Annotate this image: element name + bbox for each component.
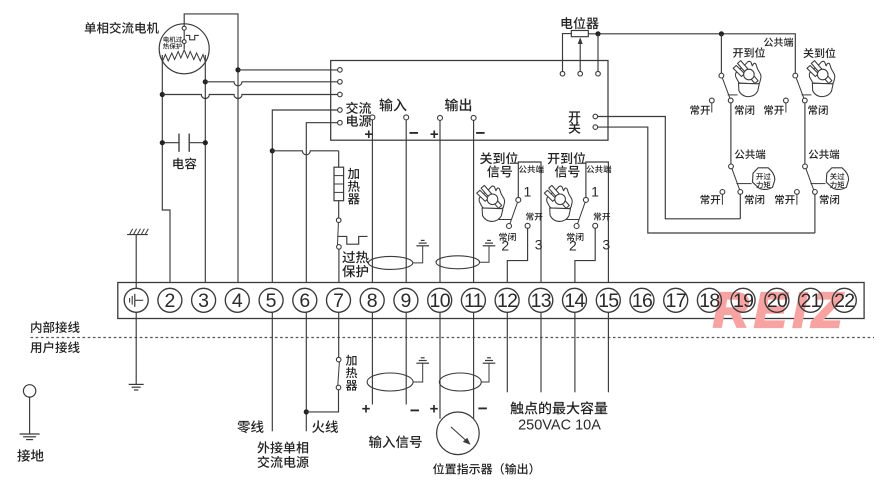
svg-text:13: 13 [531,290,551,312]
label: 开到位信号 [548,152,586,164]
terminal 4 [225,288,249,312]
svg-text:7: 7 [333,290,344,312]
wire: pot right pin [597,34,599,72]
label: 单相交流电机 [85,22,159,34]
label: 公共端 [586,165,611,173]
motor winding right [184,50,205,62]
label: 常开 [701,195,721,205]
terminal 12 [495,288,519,312]
controller pin 1 [338,68,343,73]
position indicator meter P1 [437,412,480,455]
junction: AC / heater branch [270,148,275,153]
wire: terminal 15 stub [607,312,609,392]
svg-text:17: 17 [666,290,686,312]
terminal 6 [293,288,317,312]
label: 公共端 [519,165,544,173]
svg-text:+: + [430,126,439,143]
wire: S1 NC to S3 common [730,103,732,164]
terminal 13 [529,288,553,312]
label: 常闭 [735,105,754,115]
junction: pot right / pin branch [595,31,600,36]
svg-text:21: 21 [800,290,820,312]
terminal 7 [327,288,351,312]
heater R1 (加热器) [334,167,344,201]
controller pin open (开) [593,114,598,119]
label: 接地 [17,449,43,462]
label: 公共端 [809,149,840,159]
label: 关到位信号 [480,152,518,164]
svg-text:12: 12 [497,290,517,312]
cable shield loop (user output) [439,373,481,391]
label: 开过力矩 [756,173,770,180]
svg-text:2: 2 [501,237,509,253]
terminal 19 [731,288,755,312]
wire: pot right rail to limit switches [588,34,795,74]
wire: S4 NC down [814,194,816,233]
earth electrode (接地) [23,385,35,397]
label: 常开 [526,212,542,220]
svg-text:+: + [364,126,373,143]
controller pin 3 [338,92,343,97]
terminal 5 [259,288,283,312]
terminal 17 [664,288,688,312]
svg-text:20: 20 [767,290,788,312]
wire: input- to terminal 9 [405,120,407,288]
svg-text:10: 10 [430,290,451,312]
controller pin close (关) [593,125,598,130]
controller pin AC (交流) [338,108,343,113]
wire: heater to thermal protector [338,201,340,218]
label: 电机过热保护 [164,36,183,42]
cable shield loop (output) [436,256,480,269]
terminal 18 [697,288,721,312]
torque switch S4 关过力矩 [803,164,808,169]
wire: input+ to terminal 8 [371,120,373,288]
motor thermal protector step symbol [186,35,199,39]
internal/user wiring separator [31,337,875,339]
svg-text:1: 1 [524,184,532,200]
label: 常闭 [820,195,839,205]
svg-text:3: 3 [602,237,610,253]
svg-text:+: + [362,401,371,418]
cable shield loop (user input) [367,373,413,391]
label: 常开 [775,195,795,205]
capacitor C1 [162,142,179,144]
microswitch S6 开到位信号 [544,185,572,221]
wire: terminal 13 stub [540,312,542,392]
wire: pot left to controller [563,34,572,72]
svg-text:14: 14 [564,290,585,312]
svg-text:3: 3 [198,290,209,312]
junction: motor-top wire / pin1 branch [235,67,240,72]
label: 常闭 [745,195,764,205]
terminal strip TB1 [118,283,864,319]
terminal 8 [360,288,384,312]
label: 加热器 (vertical) [348,168,359,179]
wire: neutral (零线) [271,312,273,431]
label: 常闭 [499,233,516,241]
controller pin output+ [438,115,443,120]
junction: rail / 开到位 common branch [719,31,724,36]
label: 开到位 [733,47,765,57]
wire: output - [473,312,475,419]
motor terminal [182,26,186,30]
svg-text:2: 2 [569,237,577,253]
label: 位置指示器（输出） [433,463,532,474]
motor M1 (单相交流电机) [159,24,209,74]
wire: motor top terminal to controller pin 1 and terminal 4 [184,14,238,288]
terminal 20 [765,288,789,312]
svg-text:9: 9 [400,290,411,312]
label: 公共端 [764,37,793,46]
label: 交流 [346,102,371,114]
controller pin 2 [338,80,343,85]
external heater switch (加热器) [338,312,340,357]
svg-text:22: 22 [834,290,854,312]
label: 关 [569,122,581,134]
wire: S5 common to terminal 13 [518,162,541,288]
svg-text:4: 4 [232,290,243,312]
wire: terminal 12 stub [506,312,508,392]
terminal 14 [563,288,587,312]
terminal 11 [461,288,485,312]
motor winding left [162,50,184,62]
terminal 2 [158,288,182,312]
label: 常开 [764,105,784,115]
label: 常开 [690,105,710,115]
label: 电容 [173,158,196,170]
controller pin input+ [370,115,375,120]
shield earth [481,363,489,382]
potentiometer RP1 (电位器) [571,31,588,37]
controller pin power (电源) [338,120,343,125]
wire: junction to controller pin 1 [238,69,338,71]
wire: input signal + [371,312,373,404]
label: 输出 [445,98,471,111]
label: 触点的最大容量 [510,401,607,414]
wire: motor right winding to terminal 3 [204,55,206,288]
svg-text:2: 2 [164,290,175,312]
wire: S6 common to terminal 15 [586,162,609,288]
cable shield loop (input) [368,256,412,269]
controller box U1 [331,61,608,141]
terminal 21 [799,288,823,312]
ground: terminal1 earth (below) [135,312,137,384]
label: 过热保护 [342,251,368,264]
svg-text:−: − [410,401,420,420]
label: 内部接线 [31,321,79,333]
wire: input signal - [405,312,407,404]
terminal 22 [832,288,856,312]
terminal 9 [394,288,418,312]
svg-text:−: − [476,124,486,143]
junction: left winding / pin3 branch [160,92,165,97]
label: 关过力矩 [830,173,844,180]
label: 输入 [380,98,407,111]
label: 电源 [347,115,371,127]
label: 零线 [237,420,263,433]
svg-text:−: − [409,124,419,143]
svg-text:19: 19 [733,290,753,312]
wire: rail to 开到位 common [720,34,722,73]
label: 关到位 [803,48,835,58]
wire: S2 NC to S4 common [804,103,806,164]
controller pin input- [404,115,409,120]
svg-text:11: 11 [464,290,483,312]
ground: terminal1 chassis (internal) [135,235,137,289]
label: 外接单相交流电源 [257,441,308,453]
label: 输入信号 [369,435,422,448]
wire: terminal 14 stub [574,312,576,392]
pot wiper arrow [579,43,581,71]
shield earth [480,246,489,262]
svg-text:3: 3 [535,237,543,253]
limit switch S2 关到位 [793,73,798,78]
torque switch S3 开过力矩 [729,164,734,169]
svg-text:15: 15 [598,290,619,312]
svg-text:6: 6 [299,290,310,312]
shield earth [413,363,423,382]
junction: right winding / pin2 branch [203,79,208,84]
wire: 开 output to 开过力矩 NC [598,117,741,219]
label: 用户接线 [30,341,79,353]
label: 电位器 [562,17,599,29]
label: 常开 [594,212,610,220]
wire: S3 NC down [739,194,741,219]
terminal 15 [596,288,620,312]
svg-text:18: 18 [699,290,719,312]
wire: live (火线) [305,312,307,431]
terminal 3 [192,288,216,312]
svg-text:250VAC 10A: 250VAC 10A [518,417,601,433]
svg-text:8: 8 [367,290,378,312]
microswitch S5 关到位信号 [477,185,505,221]
wire: heater feed (hop over x=306.3) [272,151,338,155]
wire: output + [439,312,441,418]
wire: output+ to terminal 10 [439,120,441,288]
terminal 1 (earth) [124,288,148,312]
controller pot pins [560,71,565,76]
label: 火线 [312,420,338,433]
label: 公共端 [735,149,766,159]
wire: 关 output to 关过力矩 NC [598,127,815,233]
wire: motor left winding down to jog [162,55,170,288]
wire: power pin to terminal 6 [306,123,337,289]
wire: S5 NO to terminal 12 [507,228,527,288]
terminal 16 [630,288,654,312]
junction: live / heater return [304,409,309,414]
svg-text:+: + [430,401,439,418]
svg-text:−: − [478,399,488,418]
svg-text:1: 1 [591,184,599,200]
label: 常闭 [808,105,827,115]
thermal protector F1 (过热保护) [336,218,341,223]
limit switch S1 开到位 [719,73,724,78]
svg-text:16: 16 [632,290,652,312]
svg-text:5: 5 [266,290,277,312]
label: 开 [569,111,581,122]
controller pin output- [471,115,476,120]
shield earth [413,246,423,263]
terminal 10 [428,288,452,312]
label: 加热器 (vertical) [346,355,357,366]
wire: S6 NO to terminal 14 [575,228,595,288]
wire: junction to controller pin 3 (hops over x=205,238) [162,95,337,99]
wire: output- to terminal 11 [473,120,475,288]
wire: junction to controller pin 2 (hop over x=238) [205,82,337,86]
wire: AC pin to terminal 5 [272,110,337,288]
label: 常闭 [567,233,584,241]
